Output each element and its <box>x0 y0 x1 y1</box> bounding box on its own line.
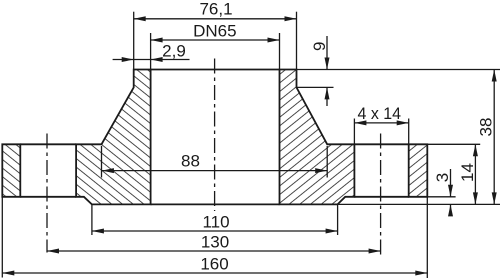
svg-text:130: 130 <box>201 233 229 252</box>
svg-text:88: 88 <box>181 152 200 171</box>
svg-text:76,1: 76,1 <box>199 0 232 19</box>
svg-text:160: 160 <box>200 255 228 274</box>
svg-text:DN65: DN65 <box>193 22 236 41</box>
svg-text:14: 14 <box>458 163 477 182</box>
svg-text:2,9: 2,9 <box>162 42 186 61</box>
svg-text:4 x 14: 4 x 14 <box>358 104 402 123</box>
svg-text:110: 110 <box>202 213 229 232</box>
svg-text:38: 38 <box>477 118 496 137</box>
svg-text:9: 9 <box>310 42 329 51</box>
svg-text:3: 3 <box>433 173 452 182</box>
